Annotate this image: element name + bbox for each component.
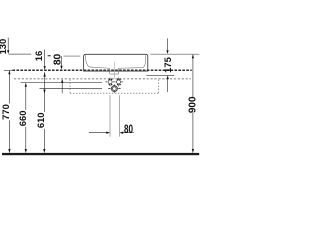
extension line left at rim level: [9, 53, 32, 55]
washbasin inner bowl profile: [85, 55, 145, 74]
installation zone dashed box right edge: [158, 80, 160, 94]
dimension 900: [188, 55, 199, 153]
drain centerline: [113, 62, 115, 79]
dimension 175: [162, 38, 173, 92]
supply connection symbol left: [105, 78, 115, 87]
dimension 660: [17, 83, 28, 153]
dimension 16 label: [33, 50, 46, 70]
extension line right at rim level: [150, 53, 199, 55]
floor line: [2, 153, 199, 155]
svg-text:770: 770: [0, 104, 11, 120]
dimension 130: [0, 38, 9, 55]
svg-text:16: 16: [33, 51, 44, 61]
svg-text:80: 80: [124, 123, 133, 136]
reference line y82.7: [21, 82, 103, 84]
washbasin outer outline: [84, 54, 148, 71]
installation zone dashed box bottom edge: [70, 92, 159, 94]
installation zone dashed box left edge: [69, 80, 71, 94]
extension line rim to 80-line: [64, 55, 81, 57]
dimension 80 bottom extension lines: [109, 95, 111, 136]
dimension 610 (shares line with 16): [35, 72, 46, 153]
svg-text:130: 130: [0, 39, 8, 55]
svg-text:610: 610: [35, 112, 46, 128]
countertop top edge thick dashed: [13, 69, 192, 71]
dimension 80 label (counter thickness): [53, 54, 64, 94]
drain connection symbol: [108, 85, 120, 93]
reference line right y75.5: [146, 75, 174, 77]
svg-text:900: 900: [188, 96, 199, 113]
reference line y88.4: [40, 87, 103, 89]
supply connection symbol right: [117, 78, 124, 87]
svg-text:660: 660: [17, 111, 28, 127]
countertop extension solid segment left: [4, 69, 13, 71]
dimension 80 bottom: [89, 123, 134, 136]
svg-text:80: 80: [53, 54, 64, 66]
svg-text:175: 175: [162, 57, 173, 73]
countertop bottom edge thin dashed: [14, 78, 191, 80]
hyphen between 16 and 80: [48, 55, 51, 57]
dimension 770: [0, 71, 11, 153]
